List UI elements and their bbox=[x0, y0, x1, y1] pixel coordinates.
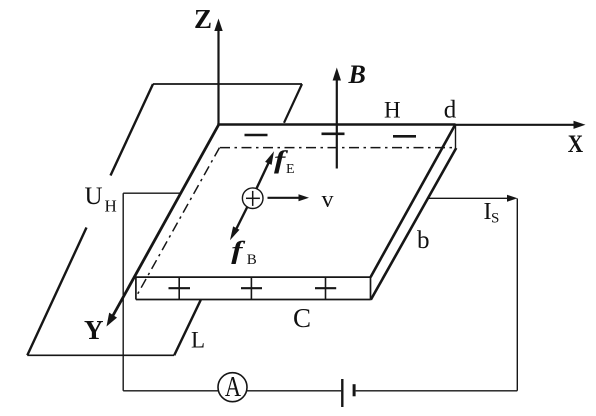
svg-text:v: v bbox=[322, 187, 334, 213]
svg-text:S: S bbox=[491, 211, 499, 227]
svg-text:b: b bbox=[417, 227, 430, 254]
svg-text:Y: Y bbox=[84, 315, 104, 345]
svg-text:d: d bbox=[444, 97, 457, 124]
svg-text:C: C bbox=[293, 303, 311, 333]
svg-text:H: H bbox=[105, 197, 117, 216]
svg-text:Z: Z bbox=[194, 4, 212, 34]
svg-text:E: E bbox=[286, 162, 295, 177]
svg-text:X: X bbox=[568, 130, 584, 158]
svg-text:A: A bbox=[225, 372, 242, 403]
svg-text:B: B bbox=[348, 60, 366, 89]
svg-text:B: B bbox=[247, 252, 257, 268]
svg-text:L: L bbox=[191, 328, 205, 353]
svg-text:U: U bbox=[85, 183, 103, 210]
svg-text:H: H bbox=[384, 97, 401, 122]
